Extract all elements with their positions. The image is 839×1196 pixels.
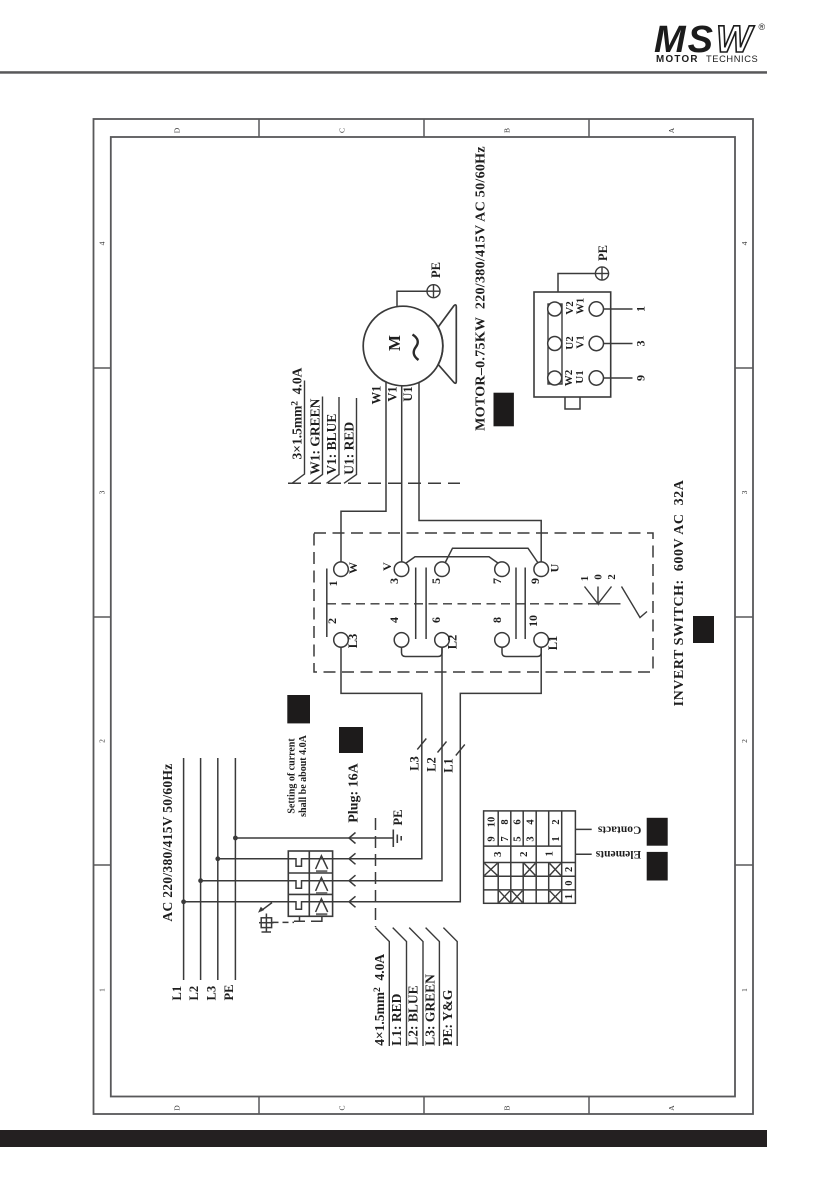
wire L1 switch t10 to breaker <box>184 647 541 902</box>
svg-text:INVERT SWITCH: 600V AC 32A: INVERT SWITCH: 600V AC 32A <box>672 479 687 706</box>
svg-text:PE: PE <box>222 985 236 1001</box>
switch terminal circles bottom row 2 4 6 8 10 <box>334 562 549 647</box>
svg-text:PE: PE <box>429 262 443 278</box>
svg-text:AC 220/380/415V 50/60Hz: AC 220/380/415V 50/60Hz <box>160 763 175 921</box>
svg-text:Plug: 16A: Plug: 16A <box>347 762 362 822</box>
pole contact bar 1-2 <box>326 569 328 638</box>
header rule <box>0 71 767 74</box>
svg-text:L1: L1 <box>170 986 184 1001</box>
svg-text:L1: L1 <box>546 636 560 651</box>
svg-text:4: 4 <box>740 241 749 245</box>
svg-text:TECHNICS: TECHNICS <box>706 54 758 64</box>
redaction box near invert switch label <box>693 616 714 643</box>
svg-text:1: 1 <box>98 988 107 992</box>
svg-text:U1: RED: U1: RED <box>342 422 357 475</box>
svg-text:V1: V1 <box>575 335 587 348</box>
svg-text:10: 10 <box>526 615 540 627</box>
wire block to PE terminal <box>558 274 595 293</box>
svg-text:U: U <box>548 563 562 572</box>
frame zone dividers <box>94 119 754 1114</box>
wire motor to PE terminal <box>397 291 427 307</box>
svg-text:1: 1 <box>579 576 591 582</box>
svg-text:C: C <box>338 128 347 133</box>
PE terminal at block <box>595 267 608 280</box>
svg-text:9: 9 <box>487 836 498 841</box>
frame outer border <box>94 119 754 1114</box>
svg-text:4: 4 <box>387 617 401 623</box>
supply line L3 <box>217 758 219 980</box>
svg-text:L2: L2 <box>425 757 439 772</box>
slash marks on L3 L2 L1 <box>417 739 465 756</box>
svg-text:W: W <box>346 562 360 574</box>
logo MSW <box>654 19 766 65</box>
svg-text:2: 2 <box>564 867 575 872</box>
callout leaders 4x1.5mm cable <box>376 928 458 1046</box>
bridge terminals 8-10 <box>502 647 541 657</box>
svg-text:A: A <box>667 127 676 133</box>
svg-text:U1: U1 <box>574 370 586 383</box>
svg-text:C: C <box>338 1105 347 1110</box>
redaction box near motor label <box>494 393 514 427</box>
svg-text:2: 2 <box>518 851 530 857</box>
motor terminal block box <box>534 292 611 397</box>
svg-text:B: B <box>503 128 512 133</box>
svg-text:3×1.5mm2 4.0A: 3×1.5mm2 4.0A <box>290 367 305 459</box>
supply line PE <box>234 758 236 980</box>
svg-text:2: 2 <box>98 739 107 743</box>
svg-text:0: 0 <box>593 574 605 580</box>
svg-text:5: 5 <box>513 836 524 841</box>
footer black bar <box>0 1130 767 1147</box>
motor M1 circle <box>363 306 443 386</box>
bridge terminals 3-7 <box>404 557 500 565</box>
svg-text:6: 6 <box>513 819 524 824</box>
svg-text:L2: L2 <box>187 986 201 1001</box>
supply line L2 <box>200 758 202 980</box>
wire L2 switch t6 to breaker <box>201 647 442 881</box>
svg-text:1: 1 <box>544 851 556 857</box>
callout leader U1 RED <box>344 398 357 483</box>
svg-text:L1: L1 <box>442 758 456 773</box>
pole contact bars 7-8/9-10 <box>515 568 517 640</box>
callout leader 3x1.5mm <box>292 381 305 484</box>
svg-text:1: 1 <box>551 836 562 841</box>
svg-text:L2: L2 <box>446 635 460 650</box>
bridge terminals 4-6 <box>402 647 443 657</box>
earth symbol at plug <box>393 830 401 848</box>
svg-text:W1: W1 <box>370 386 384 405</box>
callout leader V1 BLUE <box>327 397 340 483</box>
svg-text:7: 7 <box>500 836 511 841</box>
wire L3 switch t2 to breaker <box>219 647 422 859</box>
frame inner border <box>111 137 735 1097</box>
svg-text:PE: Y&G: PE: Y&G <box>440 989 455 1046</box>
breaker trip linkage <box>273 916 322 922</box>
callout leader W1 GREEN <box>310 397 323 484</box>
svg-text:L3: L3 <box>346 634 360 649</box>
terminal block bottom tab <box>565 397 580 409</box>
svg-text:9: 9 <box>528 578 542 584</box>
svg-text:V1: BLUE: V1: BLUE <box>324 414 339 475</box>
svg-text:PE: PE <box>596 245 610 261</box>
svg-text:L3: L3 <box>408 756 422 771</box>
svg-text:1: 1 <box>740 988 749 992</box>
svg-text:8: 8 <box>490 617 504 623</box>
svg-text:V: V <box>380 562 394 571</box>
junction dots <box>181 836 238 905</box>
svg-text:L2: BLUE: L2: BLUE <box>406 985 421 1045</box>
svg-text:L3: GREEN: L3: GREEN <box>423 974 438 1046</box>
svg-text:3: 3 <box>98 490 107 494</box>
svg-text:M: M <box>385 335 404 351</box>
svg-text:3: 3 <box>740 490 749 494</box>
redaction box near elements label <box>647 852 668 881</box>
svg-text:1: 1 <box>326 581 340 587</box>
contact table X marks <box>485 863 561 902</box>
svg-text:1: 1 <box>634 306 648 312</box>
svg-text:MOTOR–0.75KW 220/380/415V AC: MOTOR–0.75KW 220/380/415V AC 50/60Hz <box>474 146 489 431</box>
wire W1 motor to switch terminal 1 <box>341 382 386 563</box>
switch position selector <box>585 587 648 618</box>
breaker manual operator <box>259 903 274 932</box>
terminal circles W2 U2 V2 row <box>548 302 604 385</box>
svg-text:5: 5 <box>429 578 443 584</box>
svg-text:2: 2 <box>606 574 618 580</box>
svg-text:7: 7 <box>490 578 504 584</box>
switch mechanism dashed link <box>327 603 590 605</box>
bridge terminals 5-9 <box>444 548 540 565</box>
invert switch dashed enclosure <box>314 533 653 672</box>
svg-text:Setting of current: Setting of current <box>287 738 298 814</box>
svg-text:W1: GREEN: W1: GREEN <box>308 398 323 474</box>
svg-text:Elements: Elements <box>595 848 641 860</box>
PE terminal at motor <box>427 285 440 298</box>
pole contact bars 3-4/5-6 <box>415 568 417 640</box>
svg-text:3: 3 <box>492 851 504 857</box>
svg-text:A: A <box>667 1105 676 1111</box>
wire V1 motor to switch terminal 3 <box>401 386 403 562</box>
breaker thermal and magnetic elements <box>291 856 327 914</box>
svg-text:V1: V1 <box>386 386 400 401</box>
wire U1 motor to switch terminal 9 <box>419 382 541 562</box>
svg-text:W1: W1 <box>575 298 587 315</box>
plug boundary dashed line <box>375 818 377 927</box>
supply line L1 <box>183 758 185 980</box>
svg-text:3: 3 <box>634 341 648 347</box>
svg-text:2: 2 <box>325 618 339 624</box>
svg-text:D: D <box>173 127 182 133</box>
svg-text:9: 9 <box>634 375 648 381</box>
svg-text:4: 4 <box>525 819 536 825</box>
wires to pin numbers 1 3 9 <box>603 309 633 378</box>
svg-text:8: 8 <box>500 819 511 824</box>
svg-text:L1: RED: L1: RED <box>389 993 404 1045</box>
svg-text:PE: PE <box>391 810 405 826</box>
redaction box near setting label <box>287 695 310 723</box>
wire PE to earth <box>235 837 393 839</box>
svg-text:4: 4 <box>98 241 107 245</box>
leader to Contacts label <box>575 828 591 830</box>
breaker box <box>288 851 332 916</box>
svg-text:6: 6 <box>429 617 443 623</box>
svg-text:U1: U1 <box>401 386 415 401</box>
svg-text:L3: L3 <box>204 986 218 1001</box>
svg-text:D: D <box>173 1105 182 1111</box>
leader to Elements label <box>575 853 591 855</box>
svg-text:1: 1 <box>564 894 575 899</box>
redaction box near plug label <box>339 727 363 753</box>
svg-text:10: 10 <box>487 817 498 828</box>
svg-text:3: 3 <box>387 578 401 584</box>
svg-text:3: 3 <box>525 836 536 841</box>
star point shorting strap <box>548 304 562 384</box>
svg-text:MOTOR: MOTOR <box>656 54 699 65</box>
plug contact arrows <box>349 833 356 908</box>
cable dashed line (motor cable) <box>288 482 460 484</box>
contact table grid <box>484 811 576 903</box>
svg-text:0: 0 <box>564 880 575 885</box>
svg-text:shall be about 4.0A: shall be about 4.0A <box>298 734 309 816</box>
svg-text:2: 2 <box>740 739 749 743</box>
svg-text:4×1.5mm2 4.0A: 4×1.5mm2 4.0A <box>372 954 387 1046</box>
svg-text:Contacts: Contacts <box>597 823 641 835</box>
svg-text:B: B <box>503 1105 512 1110</box>
redaction box near contacts label <box>647 818 668 846</box>
svg-text:®: ® <box>759 22 766 32</box>
motor fan shroud <box>438 305 456 383</box>
svg-text:2: 2 <box>551 819 562 824</box>
